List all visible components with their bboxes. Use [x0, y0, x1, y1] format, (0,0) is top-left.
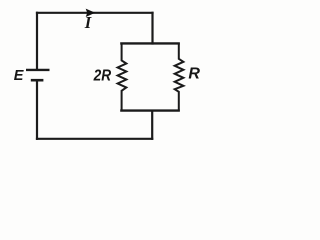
battery E: long positive plate	[26, 69, 50, 71]
resistor R: right branch (lead, zigzag body, lead)	[175, 43, 184, 112]
svg-text:2R: 2R	[93, 68, 112, 85]
wire: left side lower, battery negative plate down to bottom-left corner	[36, 79, 38, 140]
wire: bottom run from bottom-left corner to bottom-right corner	[36, 138, 153, 140]
current arrow (direction of I) on top wire	[86, 9, 94, 16]
svg-text:I: I	[84, 13, 92, 32]
resistor 2R: left branch (lead, zigzag body, lead)	[118, 43, 127, 112]
wire: top run from top-left corner to top-right corner	[36, 12, 154, 14]
battery E: short negative plate	[31, 79, 44, 82]
wire: left side upper, battery positive plate up to top-left corner	[36, 12, 38, 70]
wire: right vertical from parallel-network bottom node down to bottom wire	[151, 110, 153, 140]
node: bottom bus bar joining both resistor branches	[120, 109, 180, 111]
svg-text:R: R	[188, 66, 200, 83]
svg-text:E: E	[14, 68, 25, 84]
node: top bus bar joining both resistor branches	[120, 42, 180, 44]
wire: right vertical from top wire down to parallel-network top node	[151, 12, 153, 45]
